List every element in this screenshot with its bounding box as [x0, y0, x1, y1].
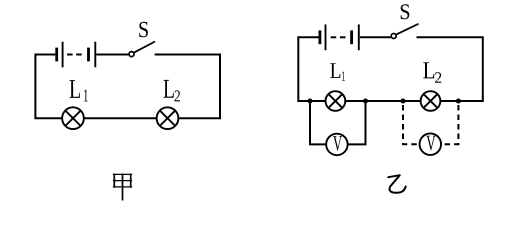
caption yi (Chinese char) — [388, 175, 405, 193]
wire: voltmeter V2 right lead (dashed) — [441, 101, 459, 144]
battery B2 cell1 positive plate (long thin) — [325, 24, 327, 50]
voltmeter V1 — [326, 134, 348, 156]
switch S blade (open) — [134, 42, 155, 53]
battery B1 cell2 positive plate (long thin) — [94, 42, 96, 68]
wire: top-right + right side + bottom-right — [155, 55, 220, 119]
lamp L1 — [326, 91, 346, 111]
switch S pivot circle — [129, 52, 134, 57]
wire: right loop top-left + left side + bottom-left — [298, 37, 326, 101]
battery B2 cell2 positive plate (long thin) — [358, 24, 360, 50]
wire: dashed link between battery cells — [67, 54, 73, 56]
label L1 — [70, 80, 88, 101]
battery B1 cell1 negative plate (short thick) — [55, 48, 58, 62]
label S — [401, 4, 410, 19]
node A (junction dot left of L1) — [308, 99, 313, 104]
label L2 — [164, 80, 181, 102]
wire: dashed link between battery cells — [331, 36, 337, 38]
label L1 — [330, 63, 345, 80]
switch S blade (open) — [396, 24, 418, 35]
caption jia (Chinese char) — [114, 174, 132, 199]
wire: voltmeter V1 left lead — [310, 101, 327, 144]
switch S pivot circle — [391, 34, 396, 39]
battery B1 cell1 positive plate (long thin) — [62, 42, 64, 68]
wire: battery to switch — [360, 36, 391, 38]
node B (junction dot right of L1) — [363, 99, 368, 104]
battery B1 cell2 negative plate (short thick) — [87, 48, 90, 62]
battery B2 cell1 negative plate (short thick) — [318, 30, 321, 44]
wire: voltmeter V2 left lead (dashed) — [403, 101, 421, 144]
lamp L1 — [62, 107, 84, 129]
voltmeter V2 — [420, 133, 442, 155]
lamp L2 — [157, 107, 179, 129]
wire: voltmeter V1 right lead — [347, 101, 366, 144]
node D (junction dot right of L2) — [456, 99, 461, 104]
lamp L2 — [421, 91, 441, 111]
wire: left loop top-left + left side + bottom-left — [35, 55, 62, 119]
node C (junction dot left of L2) — [401, 99, 406, 104]
label L2 — [423, 62, 441, 82]
wire: between lamps — [84, 117, 157, 119]
battery B2 cell2 negative plate (short thick) — [350, 30, 353, 44]
wire: between lamps — [345, 100, 420, 102]
wire: battery to switch — [96, 54, 128, 56]
wire: top-right + right side + bottom-right — [417, 37, 483, 101]
label S — [139, 22, 148, 38]
